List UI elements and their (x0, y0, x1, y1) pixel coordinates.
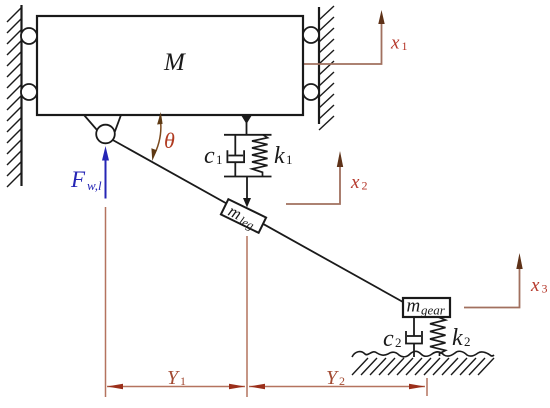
svg-text:θ: θ (164, 128, 175, 153)
wall right line (318, 7, 320, 124)
spring k1 (252, 135, 268, 177)
svg-text:x: x (350, 172, 360, 193)
dimension tick right (x=427) (426, 378, 428, 396)
pivot pin (96, 125, 115, 144)
damper c1 (227, 135, 244, 177)
svg-text:1: 1 (402, 39, 408, 53)
svg-text:m: m (407, 296, 421, 317)
svg-text:2: 2 (339, 374, 345, 388)
wall left line (20, 5, 22, 186)
force arrow F_w,l (70, 146, 109, 199)
svg-text:Y: Y (326, 367, 339, 389)
svg-text:2: 2 (362, 179, 368, 193)
svg-text:k: k (274, 143, 285, 169)
beam (leg strut) (111, 139, 403, 302)
ground hatching (352, 358, 494, 375)
axis x3 (464, 253, 548, 308)
roller right bottom (303, 84, 319, 100)
attachment triangle on m_leg (243, 198, 251, 208)
roller left bottom (21, 84, 37, 100)
svg-text:x: x (390, 33, 400, 54)
svg-text:2: 2 (464, 334, 471, 349)
svg-text:M: M (163, 49, 186, 76)
svg-text:1: 1 (216, 152, 223, 167)
svg-text:2: 2 (395, 335, 402, 350)
roller left top (21, 28, 37, 44)
svg-text:gear: gear (421, 303, 446, 318)
wall left hatching (7, 8, 21, 187)
pivot bracket (84, 115, 121, 138)
svg-text:3: 3 (542, 282, 548, 296)
svg-text:Y: Y (167, 367, 180, 389)
svg-text:F: F (70, 167, 86, 192)
svg-text:w,l: w,l (87, 178, 102, 193)
svg-text:x: x (530, 275, 540, 296)
attachment triangle under M (241, 115, 252, 124)
damper c2 (406, 317, 422, 357)
top bar c1k1 (224, 134, 272, 136)
label k2 (452, 325, 471, 351)
rod from M to damper-spring top bar (246, 115, 248, 135)
mass m_gear (403, 296, 450, 318)
dimension Y1 (107, 367, 245, 389)
svg-text:1: 1 (286, 152, 293, 167)
roller right top (303, 27, 319, 43)
wall right hatching (319, 6, 334, 130)
label c1 (204, 143, 223, 169)
svg-text:c: c (204, 143, 215, 169)
spring k2 (430, 317, 446, 356)
dimension extension line middle (x=247) (246, 236, 248, 397)
axis x2 (286, 151, 368, 204)
dimension Y2 (249, 367, 425, 389)
label k1 (274, 143, 293, 169)
label c2 (383, 326, 402, 352)
bottom bar c1k1 (224, 176, 272, 178)
svg-text:1: 1 (180, 374, 186, 388)
rod from bottom bar to m_leg (246, 177, 248, 201)
axis x1 (248, 10, 408, 64)
mass m_leg (219, 199, 266, 236)
mass M (37, 16, 303, 115)
svg-text:c: c (383, 326, 394, 352)
svg-text:k: k (452, 325, 463, 351)
ground wavy line (352, 351, 494, 357)
dimension extension line left (x=105) (105, 207, 107, 397)
angle arc theta (151, 112, 175, 161)
